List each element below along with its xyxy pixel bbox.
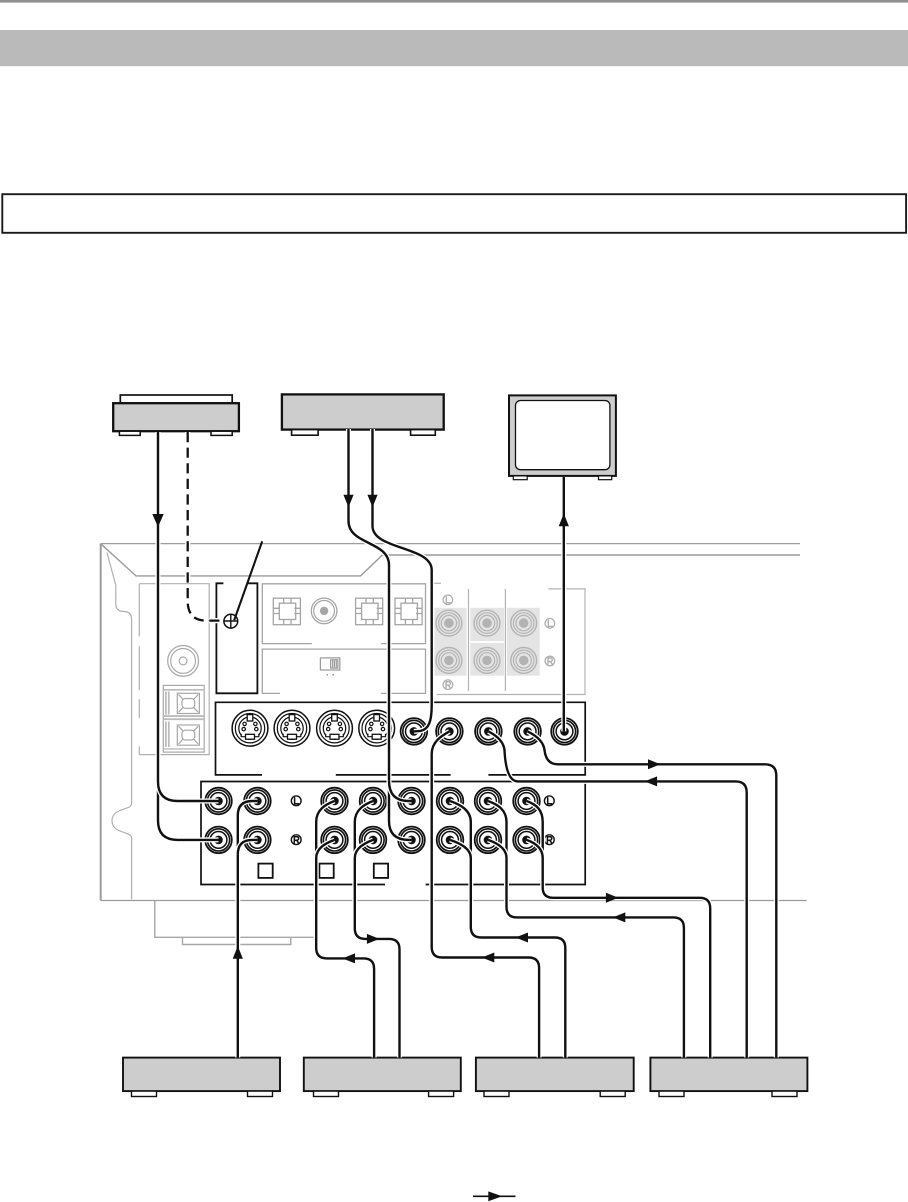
arrowhead col6 left (516, 933, 529, 943)
wire: tape play in col3 (316, 801, 374, 1058)
GND terminal box (216, 583, 257, 693)
GND screw terminal (223, 614, 238, 629)
pre-out grayed jacks (436, 610, 462, 636)
GND label pointer line (234, 541, 262, 620)
audio jacks row L (205, 788, 232, 815)
speaker impedance squares (258, 864, 388, 878)
wire: DVD audio to CD input R (349, 429, 412, 840)
arrowhead CD up (233, 946, 243, 959)
optical jack 1 (273, 598, 300, 625)
wire: audio play in col7 R branch (488, 840, 507, 858)
FM 75-ohm antenna jack (168, 646, 199, 677)
wire: tape play col3 R branch (316, 840, 334, 858)
arrowhead col4 right (367, 934, 380, 944)
audio section box (201, 782, 585, 885)
wire: turntable branch to phono L (158, 782, 219, 802)
antenna terminal panel (139, 584, 209, 755)
s-video jack 1 (232, 710, 268, 746)
arrowhead TV up (559, 514, 569, 527)
arrowhead video out right (648, 759, 661, 769)
wire: CD branch to col2 R (238, 840, 258, 855)
video RCA jack v4 (514, 718, 541, 745)
wire: audio rec out col8 to VCR (527, 801, 711, 1058)
lower selector box (262, 649, 425, 693)
video RCA jack v2 (436, 718, 463, 745)
AM antenna spring terminal block (163, 685, 204, 752)
bottom component box 1 (CD player) (123, 1058, 280, 1097)
bottom component box 2 (tape deck) (304, 1058, 461, 1097)
bottom component box 4 (VCR) (650, 1058, 807, 1097)
wire: turntable to phono R (158, 432, 219, 840)
DVD player component box (282, 394, 444, 435)
legend signal arrow (473, 1191, 516, 1201)
receiver rear panel outline (101, 544, 807, 901)
optical jack 2 (356, 598, 383, 625)
wire: DVD video to video in v1 (373, 429, 432, 731)
bottom component box 3 (video source) (476, 1058, 634, 1097)
wire: tape rec col4 R branch (355, 840, 373, 858)
wire: DVD audio branch to CD input L (389, 781, 412, 801)
wire: audio in col6 R branch (450, 840, 471, 858)
TV monitor component box (509, 395, 616, 479)
arrowhead play in left (613, 912, 626, 922)
pre-out shading bands (434, 608, 539, 676)
coaxial digital jack (311, 598, 337, 624)
wire: audio rec out col8 R branch (527, 840, 543, 858)
receiver foot (183, 937, 291, 944)
wire: audio play in col7 from VCR (488, 801, 684, 1058)
arrowhead DVD video down (367, 495, 377, 508)
s-video jack 4 (359, 710, 395, 746)
arrowhead rec out right (606, 893, 619, 903)
video RCA jack v5 (551, 718, 578, 745)
video RCA jack v3 (475, 718, 502, 745)
slide switch (320, 658, 339, 676)
arrowhead col3 left (343, 953, 356, 963)
wire: CD player to CD in col2 (238, 801, 258, 1058)
6ch pre-out section frame (434, 583, 586, 694)
s-video jack 3 (317, 710, 353, 746)
wire: video out v4 to VCR (528, 731, 777, 1057)
wire: video in v3 from VCR (488, 731, 746, 1057)
pre-out circled letters (443, 595, 555, 690)
video RCA jack v1 (401, 718, 428, 745)
digital input box upper (262, 584, 425, 644)
arrowhead DVD audio down (343, 495, 353, 508)
s-video jack 2 (274, 710, 310, 746)
gray heading band (0, 30, 908, 66)
top page rule bar (0, 0, 908, 3)
audio circled letters (291, 796, 554, 845)
turntable component box (113, 395, 239, 435)
arrowhead video in left (645, 776, 658, 786)
wire: audio in col6 from video source (450, 801, 565, 1058)
optical jack 3 (395, 598, 422, 625)
receiver pedestal (155, 901, 315, 937)
wire: turntable ground lead (dashed) (188, 432, 224, 621)
wire: monitor out v5 to TV (561, 477, 566, 731)
arrowhead turntable down (152, 514, 163, 527)
video section box (216, 702, 586, 775)
arrowhead v2 left (482, 953, 495, 963)
note outline box (2, 194, 906, 233)
wire: tape rec out col4 (355, 801, 400, 1058)
wire: video in v2 from video source (432, 731, 539, 1057)
audio jacks row R (205, 827, 232, 854)
